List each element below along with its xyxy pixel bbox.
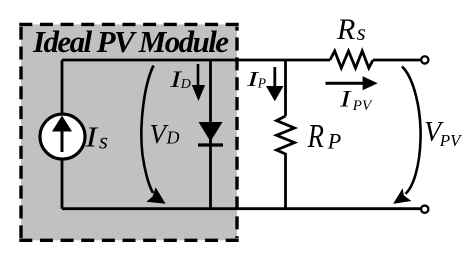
current source Is circle: [40, 114, 85, 159]
wire top (left segment): [62, 59, 330, 62]
svg-text:s: s: [99, 128, 108, 153]
current IPV arrow: [326, 82, 365, 85]
PV module dashed box: [21, 24, 237, 240]
wire top (right segment): [373, 59, 420, 62]
svg-text:R: R: [336, 13, 355, 46]
terminal bottom: [421, 206, 428, 213]
box border left: [19, 27, 22, 239]
terminal top: [421, 56, 428, 63]
svg-text:D: D: [166, 128, 180, 148]
wire bottom: [62, 207, 420, 210]
wire Rp branch top: [284, 60, 287, 116]
svg-text:D: D: [180, 77, 191, 92]
svg-text:PV: PV: [439, 131, 463, 150]
box border bottom: [19, 239, 238, 242]
svg-text:R: R: [307, 118, 324, 155]
VPV curved arrow: [402, 67, 421, 194]
wire left branch: [61, 60, 64, 209]
svg-text:PV: PV: [352, 98, 373, 114]
svg-text:Ideal PV Module: Ideal PV Module: [32, 24, 229, 59]
wire diode branch: [209, 60, 212, 209]
svg-text:s: s: [357, 20, 366, 45]
current ID arrow: [197, 64, 200, 87]
box border top: [19, 23, 238, 26]
svg-text:P: P: [327, 129, 341, 154]
diode D triangle: [199, 122, 223, 142]
box border right: [235, 27, 238, 239]
resistor RP zigzag: [277, 116, 295, 156]
diode bar: [198, 143, 223, 146]
svg-text:I: I: [339, 87, 353, 112]
VD curved arrow: [141, 66, 153, 194]
current source arrow: [61, 130, 64, 152]
current IP arrow: [273, 67, 276, 88]
resistor RS zigzag: [330, 51, 373, 68]
svg-text:P: P: [257, 75, 266, 90]
wire Rp branch bottom: [284, 156, 287, 209]
svg-text:I: I: [84, 121, 98, 153]
